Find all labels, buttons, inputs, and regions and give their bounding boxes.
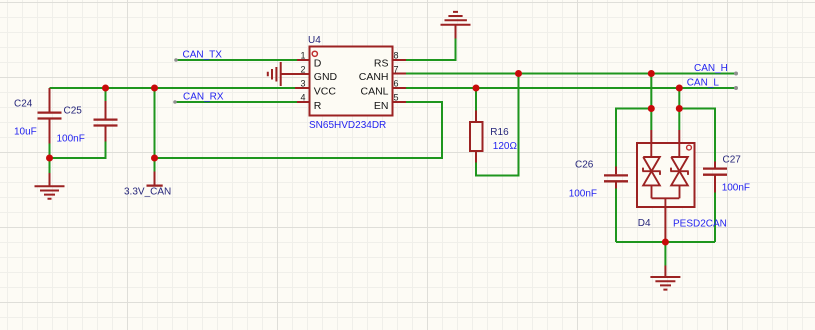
ground top (inverted) at RS	[441, 12, 471, 39]
junction node CANL/D4	[676, 85, 683, 92]
svg-text:VCC: VCC	[314, 86, 337, 98]
wire 3.3V_CAN vertical	[154, 88, 156, 172]
wire C26 bottom	[615, 189, 617, 243]
svg-text:100nF: 100nF	[722, 183, 750, 194]
svg-text:D: D	[314, 58, 322, 70]
svg-text:7: 7	[394, 65, 399, 75]
wire bottom-right ground bus	[616, 241, 715, 243]
svg-text:120Ω: 120Ω	[493, 141, 518, 152]
capacitor C24	[38, 88, 62, 144]
pin 1 stub	[297, 59, 310, 61]
wire CANH net	[406, 73, 736, 75]
pin 7 stub	[393, 73, 407, 75]
bottom join and stem	[652, 198, 680, 207]
left TVS pair	[642, 143, 660, 198]
svg-text:C26: C26	[575, 160, 594, 171]
ground under C24	[35, 173, 65, 199]
svg-text:GND: GND	[314, 71, 338, 83]
capacitor C26	[604, 167, 628, 189]
D4 body fill	[637, 143, 695, 207]
ground bottom-right	[650, 266, 680, 290]
svg-text:6: 6	[394, 79, 399, 89]
junction node CANL/R16	[473, 85, 480, 92]
wire end CAN_TX	[174, 58, 178, 62]
svg-text:CAN_L: CAN_L	[687, 78, 720, 89]
pin 8 stub	[393, 59, 407, 61]
svg-text:CANL: CANL	[360, 86, 388, 98]
wire CANL net	[406, 87, 736, 89]
pin 6 stub	[393, 87, 407, 89]
junction node D4 gnd	[662, 239, 669, 246]
junction node C24 gnd	[46, 155, 53, 162]
junction node VCC/C25	[102, 85, 109, 92]
svg-text:CAN_TX: CAN_TX	[183, 50, 223, 61]
svg-text:1: 1	[300, 51, 305, 61]
wire end CAN_RX	[173, 100, 177, 104]
junction node 3.3V/EN	[151, 155, 158, 162]
junction node VCC/3.3V	[151, 85, 158, 92]
svg-text:3.3V_CAN: 3.3V_CAN	[124, 187, 171, 198]
svg-text:D4: D4	[638, 218, 651, 229]
svg-text:CAN_H: CAN_H	[694, 63, 728, 74]
pin 4 stub	[297, 101, 310, 103]
wire CAN_RX to pin 4	[175, 101, 297, 103]
svg-text:5: 5	[394, 93, 399, 103]
wire bottom-left cap ground bus	[50, 142, 106, 159]
svg-text:U4: U4	[308, 35, 321, 46]
svg-text:CAN_RX: CAN_RX	[183, 91, 224, 102]
wire RS pin to top ground	[406, 39, 456, 61]
D4 indicator circle	[687, 145, 692, 150]
junction node CANH/D4	[648, 70, 655, 77]
junction node C27 branch	[676, 105, 683, 112]
svg-text:C24: C24	[14, 99, 33, 110]
svg-text:C27: C27	[723, 155, 742, 166]
wire D4 ground stem	[664, 242, 666, 266]
wire CAN_TX to pin 1	[176, 59, 297, 61]
resistor R16	[470, 111, 483, 163]
svg-text:R: R	[314, 100, 322, 112]
svg-text:R16: R16	[490, 127, 509, 138]
svg-text:SN65HVD234DR: SN65HVD234DR	[309, 120, 386, 131]
pin 5 stub	[393, 101, 407, 103]
svg-text:4: 4	[300, 93, 305, 103]
wire R16 bottom to CANH	[476, 74, 519, 176]
wire R16 top stem	[475, 88, 477, 111]
svg-text:3: 3	[300, 79, 305, 89]
TVS diode D4 PESD2CAN	[637, 130, 695, 239]
wire branch to C27	[679, 109, 715, 162]
svg-text:10uF: 10uF	[14, 127, 37, 138]
wire C27 bottom	[714, 193, 716, 243]
ground at pin 2 (rotated)	[268, 62, 310, 86]
svg-text:RS: RS	[374, 58, 389, 70]
power port 3.3V_CAN	[147, 172, 163, 186]
svg-text:EN: EN	[374, 100, 389, 112]
capacitor C27	[703, 162, 727, 193]
R16 body fill	[470, 122, 483, 151]
capacitor C25	[94, 101, 118, 142]
junction node CANH/R16	[515, 70, 522, 77]
junction node C26 branch	[648, 105, 655, 112]
pin 1 indicator circle	[312, 51, 317, 56]
IC U4 SN65HVD234DR body and pins	[295, 47, 406, 116]
svg-text:CANH: CANH	[359, 71, 389, 83]
wire VCC net top-left horizontal	[50, 87, 298, 89]
pin 3 stub	[295, 87, 310, 89]
wire EN to 3.3V_CAN	[155, 102, 443, 158]
wire CANH down to D4	[650, 74, 652, 131]
wire C24 ground stem	[49, 158, 51, 173]
svg-text:100nF: 100nF	[57, 134, 85, 145]
svg-text:8: 8	[394, 51, 399, 61]
svg-text:C25: C25	[64, 106, 83, 117]
svg-text:100nF: 100nF	[569, 188, 597, 199]
U4 body fill	[310, 47, 393, 116]
wire CANL down to D4	[678, 88, 680, 130]
wire C25 top stem	[105, 88, 107, 101]
svg-text:PESD2CAN: PESD2CAN	[673, 219, 727, 230]
svg-text:2: 2	[300, 65, 305, 75]
wire end CAN_H	[734, 72, 738, 76]
pin stubs into box	[651, 130, 679, 143]
wire end CAN_L	[734, 86, 738, 90]
right TVS pair	[670, 143, 688, 198]
wire branch to C26	[616, 109, 651, 167]
